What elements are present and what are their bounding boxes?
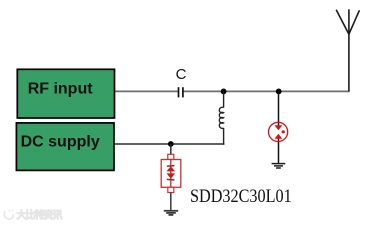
node junction on DC line (TVS tap) (168, 141, 174, 147)
block RF input (17, 69, 114, 118)
wire: junction down to ESD diode (278, 91, 280, 127)
TVS diode (boxed bidirectional suppressor) (161, 154, 181, 192)
ground (left) (164, 211, 178, 215)
ground (right) (272, 164, 286, 168)
node junction at inductor tap (221, 89, 227, 95)
watermark (4, 208, 62, 222)
svg-text:大比特资讯: 大比特资讯 (17, 209, 63, 222)
wire: junction down to inductor (223, 91, 225, 107)
svg-text:C: C (176, 66, 187, 83)
wire: TVS to ground (170, 193, 172, 211)
wire: inductor bottom to DC line (223, 128, 225, 145)
capacitor C (179, 87, 183, 97)
zener bar bottom (167, 178, 175, 181)
ESD protection diode (circle, bidirectional) (269, 122, 288, 141)
antenna (336, 9, 359, 91)
zener bar top (167, 165, 175, 168)
inductor L coil (219, 107, 223, 128)
wire: RF input to capacitor (115, 90, 178, 92)
node junction at ESD tap (276, 89, 282, 95)
wire: ESD diode to ground (278, 136, 280, 164)
diode down (167, 173, 176, 178)
wire: DC supply to inductor bottom (114, 143, 224, 145)
block DC supply (16, 123, 114, 170)
wire: junction down to TVS (170, 144, 172, 155)
svg-text:RF input: RF input (28, 80, 94, 97)
svg-text:DC supply: DC supply (21, 133, 100, 150)
svg-text:SDD32C30L01: SDD32C30L01 (190, 186, 292, 207)
wire: capacitor to antenna corner (183, 90, 349, 92)
diode up (167, 166, 176, 171)
svg-text:®®: ®® (8, 208, 14, 213)
